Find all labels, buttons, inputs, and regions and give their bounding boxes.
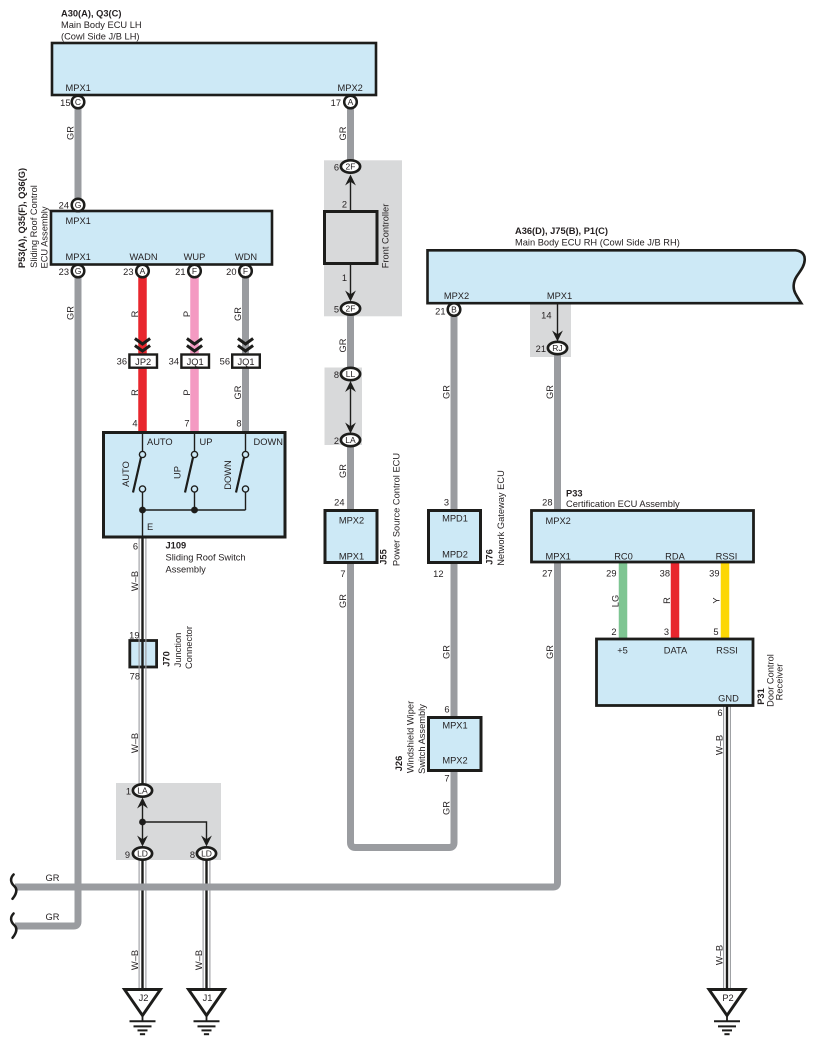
svg-text:36: 36: [117, 357, 127, 367]
title J76 rotated: [485, 549, 495, 565]
label MPX2 in J55: [339, 516, 364, 526]
pin 15 C: [60, 96, 84, 109]
label DOWN rotated in J109: [223, 460, 233, 489]
title Connector rotated: [184, 626, 194, 669]
receiver P31 box: [597, 639, 754, 706]
arrow down into lower 2F: [345, 291, 356, 302]
label WADN in P53: [129, 252, 157, 262]
label GR wire P33 down: [545, 645, 555, 659]
chevron arrows into JP2: [135, 339, 150, 352]
wire W-B connector LD to ground J1: [203, 859, 210, 990]
svg-text:LD: LD: [137, 849, 148, 859]
svg-text:MPX1: MPX1: [66, 216, 91, 226]
title P33: [566, 489, 680, 510]
svg-text:2F: 2F: [346, 304, 356, 314]
label R wire upper: [130, 310, 140, 317]
link junction down to LD 9: [142, 822, 144, 840]
svg-text:8: 8: [236, 419, 241, 429]
svg-text:B: B: [451, 305, 457, 315]
label AUTO rotated in J109: [121, 461, 131, 487]
label UP rotated in J109: [173, 466, 183, 479]
ECU A30 Main Body ECU LH box: [52, 43, 376, 95]
svg-text:Front Controller: Front Controller: [381, 204, 391, 269]
svg-text:W–B: W–B: [130, 950, 140, 970]
pin 1 label front controller: [342, 273, 347, 283]
switch J26 box: [429, 718, 482, 771]
svg-text:G: G: [75, 200, 82, 210]
svg-text:G: G: [75, 266, 82, 276]
LA-LD connector shaded panel: [116, 783, 221, 860]
svg-text:C: C: [75, 97, 81, 107]
label Y wire P33: [712, 597, 722, 603]
svg-text:WDN: WDN: [235, 252, 257, 262]
connector 9 LD: [125, 847, 152, 860]
svg-text:Receiver: Receiver: [775, 664, 785, 701]
pin 5 label P31: [713, 627, 718, 637]
svg-text:2: 2: [334, 436, 339, 446]
svg-text:24: 24: [59, 201, 69, 211]
svg-text:P31: P31: [756, 688, 766, 705]
svg-text:MPX1: MPX1: [546, 552, 571, 562]
svg-text:LL: LL: [346, 369, 356, 379]
svg-text:GR: GR: [338, 338, 348, 352]
svg-text:A30(A), Q3(C): A30(A), Q3(C): [61, 9, 121, 19]
svg-text:15: 15: [60, 98, 70, 108]
front controller shaded panel: [324, 160, 402, 316]
RJ connector shaded panel: [530, 304, 571, 358]
svg-text:JQ1: JQ1: [237, 357, 254, 367]
svg-text:J109: J109: [166, 541, 187, 551]
label GR horizontal lower: [46, 912, 60, 922]
label UP in J109: [200, 437, 213, 447]
wire R pin23A to JP2: [138, 271, 147, 355]
svg-text:21: 21: [536, 344, 546, 354]
title J55 rotated: [379, 549, 389, 565]
svg-text:LA: LA: [345, 435, 356, 445]
svg-text:RC0: RC0: [614, 552, 633, 562]
ECU J76 box: [429, 511, 481, 563]
pin 21 F: [175, 265, 201, 278]
pin 27 label P33: [542, 569, 552, 579]
svg-text:RSSI: RSSI: [716, 646, 738, 656]
link 2F to front controller pin2: [350, 180, 352, 212]
svg-text:RSSI: RSSI: [716, 552, 738, 562]
connector 8 LL: [334, 368, 360, 380]
label E in J109: [147, 522, 153, 532]
svg-text:E: E: [147, 522, 153, 532]
label RC0 in P33: [614, 552, 633, 562]
svg-text:8: 8: [334, 370, 339, 380]
svg-text:4: 4: [132, 419, 137, 429]
label MPX1 top in P53: [66, 216, 91, 226]
arrow down into RJ: [552, 331, 563, 342]
arrow down into LA: [345, 423, 356, 434]
wire GR pin21B to J76 MPD1: [451, 310, 458, 513]
label RSSI in P31: [716, 646, 738, 656]
svg-text:5: 5: [334, 305, 339, 315]
link front controller pin1 to 2F: [350, 263, 352, 296]
svg-text:MPX2: MPX2: [442, 756, 467, 766]
svg-text:7: 7: [444, 774, 449, 784]
ground J1: [189, 990, 225, 1035]
label MPX1 in J55: [339, 552, 364, 562]
label W-B wire LD-J1: [194, 950, 204, 970]
connector 36 JP2: [117, 355, 157, 368]
pin 23 A: [123, 265, 149, 278]
junction dot AUTO bus: [139, 507, 146, 514]
junction connector J70: [130, 641, 157, 668]
pin 14 label: [541, 311, 551, 321]
wire GR J76 MPD2 to J26 MPX1: [451, 561, 458, 719]
svg-text:R: R: [130, 310, 140, 317]
svg-text:Main Body ECU LH: Main Body ECU LH: [61, 20, 142, 30]
title Network Gateway ECU rotated: [496, 470, 506, 566]
svg-text:34: 34: [169, 357, 179, 367]
svg-text:17: 17: [331, 98, 341, 108]
svg-text:Sliding Roof Switch: Sliding Roof Switch: [166, 553, 246, 563]
arrow down into LD 9: [137, 836, 148, 847]
svg-text:F: F: [243, 266, 248, 276]
svg-text:9: 9: [125, 850, 130, 860]
link LL to LA: [350, 386, 352, 428]
svg-text:6: 6: [444, 705, 449, 715]
label RSSI in P33: [716, 552, 738, 562]
svg-text:GR: GR: [545, 645, 555, 659]
label GR wire 17-2F: [338, 126, 348, 140]
wire GR pin17A to connector 2F: [347, 102, 354, 164]
label GR horizontal upper: [46, 873, 60, 883]
svg-text:MPX1: MPX1: [66, 252, 91, 262]
pin 8 label switch: [236, 419, 241, 429]
label GR wire 23 down: [66, 306, 76, 320]
svg-text:P33: P33: [566, 489, 583, 499]
svg-text:A: A: [348, 97, 354, 107]
svg-text:R: R: [130, 389, 140, 396]
label MPD1 in J76: [442, 514, 468, 524]
svg-text:W–B: W–B: [715, 945, 725, 965]
svg-text:R: R: [662, 597, 672, 604]
break symbol lower GR: [11, 914, 16, 938]
label MPX1 bottom in P53: [66, 252, 91, 262]
svg-text:MPX2: MPX2: [444, 291, 469, 301]
svg-text:6: 6: [717, 708, 722, 718]
link LA to LD junction: [142, 802, 144, 822]
svg-text:6: 6: [334, 163, 339, 173]
arrow up into lower LA: [137, 798, 148, 809]
svg-text:39: 39: [709, 569, 719, 579]
ground P2: [709, 990, 745, 1035]
svg-text:Connector: Connector: [184, 626, 194, 669]
svg-text:AUTO: AUTO: [147, 437, 173, 447]
svg-text:23: 23: [123, 267, 133, 277]
pin 6 label switch: [133, 542, 138, 552]
svg-text:3: 3: [664, 627, 669, 637]
svg-text:GR: GR: [66, 126, 76, 140]
label GR wire 15-24: [66, 126, 76, 140]
svg-text:J26: J26: [394, 756, 404, 772]
label GR wire 20 upper: [233, 307, 243, 321]
wire P JQ1 to switch pin7: [190, 367, 199, 433]
svg-text:2: 2: [342, 200, 347, 210]
pin 38 label P33: [660, 569, 670, 579]
pin 21 B: [435, 303, 460, 316]
svg-text:27: 27: [542, 569, 552, 579]
title A36: [515, 226, 680, 248]
label W-B wire switch-J70: [130, 571, 140, 591]
svg-text:GR: GR: [46, 912, 60, 922]
connector 6 2F: [334, 160, 360, 172]
label GR wire J55 down: [338, 594, 348, 608]
wire GR J55 MPX1 to J26 MPX2: [351, 561, 455, 848]
svg-text:MPX2: MPX2: [339, 516, 364, 526]
svg-text:7: 7: [340, 569, 345, 579]
pin 6 label J26: [444, 705, 449, 715]
arrow up into 2F: [345, 175, 356, 186]
svg-text:MPX2: MPX2: [546, 516, 571, 526]
svg-text:J76: J76: [485, 549, 495, 565]
ground J2: [125, 990, 161, 1035]
pin 19 label J70: [129, 631, 139, 641]
label MPD2 in J76: [442, 550, 468, 560]
svg-text:23: 23: [59, 267, 69, 277]
wire GR pin15C to pin24G: [75, 102, 82, 205]
svg-text:Y: Y: [712, 597, 722, 603]
label AUTO in J109: [147, 437, 173, 447]
svg-text:Sliding Roof Control: Sliding Roof Control: [29, 185, 39, 268]
svg-text:W–B: W–B: [130, 733, 140, 753]
svg-text:56: 56: [220, 357, 230, 367]
label WUP in P53: [184, 252, 206, 262]
svg-text:GR: GR: [441, 385, 451, 399]
pin 7 label J26: [444, 774, 449, 784]
svg-text:Power Source Control ECU: Power Source Control ECU: [392, 453, 402, 566]
title Receiver rotated: [775, 664, 785, 701]
label MPX1 in J26: [442, 721, 467, 731]
title ECU Assembly rotated: [40, 206, 50, 268]
connector 21 RJ: [536, 342, 567, 354]
wire Y P33 RSSI to P31 RSSI: [721, 561, 730, 640]
pin 17 A: [331, 96, 357, 109]
connector 1 LA: [126, 784, 152, 796]
title Door Control rotated: [766, 654, 776, 707]
pin 3 label J76: [444, 498, 449, 508]
svg-text:LD: LD: [201, 849, 212, 859]
link ECU RH pin14 to RJ: [557, 303, 559, 335]
label MPX2 in J26: [442, 756, 467, 766]
pin 20 F: [226, 265, 252, 278]
label DATA in P31: [664, 646, 688, 656]
svg-text:12: 12: [433, 569, 443, 579]
junction dot at LA-LD split: [139, 819, 146, 826]
svg-text:GR: GR: [233, 307, 243, 321]
svg-text:ECU Assembly: ECU Assembly: [40, 206, 50, 268]
wire GR pin20F to JQ1: [242, 271, 249, 355]
wire W-B P31 GND to ground P2: [724, 706, 731, 991]
svg-text:6: 6: [133, 542, 138, 552]
label LG wire: [610, 595, 620, 607]
svg-text:3: 3: [444, 498, 449, 508]
svg-text:MPX1: MPX1: [547, 291, 572, 301]
svg-text:78: 78: [130, 672, 140, 682]
svg-text:DATA: DATA: [664, 646, 688, 656]
svg-text:A: A: [140, 266, 146, 276]
label W-B wire LD-J2: [130, 950, 140, 970]
svg-text:W–B: W–B: [130, 571, 140, 591]
pin 78 label J70: [130, 672, 140, 682]
pin 2 label front controller: [342, 200, 347, 210]
svg-text:F: F: [192, 266, 197, 276]
title Power Source Control ECU rotated: [392, 453, 402, 566]
connector 2 LA: [334, 434, 360, 446]
svg-text:GR: GR: [66, 306, 76, 320]
label GR wire RJ-P33: [545, 385, 555, 399]
title Front Controller rotated: [381, 204, 391, 269]
label GR wire LA-J55: [338, 464, 348, 478]
link junction across to LD 8: [143, 822, 207, 840]
label GR wire B-J76: [441, 385, 451, 399]
svg-text:MPX1: MPX1: [339, 552, 364, 562]
svg-text:LG: LG: [610, 595, 620, 607]
svg-text:UP: UP: [173, 466, 183, 479]
svg-text:GR: GR: [233, 385, 243, 399]
svg-text:20: 20: [226, 267, 236, 277]
svg-text:GR: GR: [46, 873, 60, 883]
label MPX1 in A36: [547, 291, 572, 301]
svg-text:GR: GR: [441, 801, 451, 815]
title J109: [166, 541, 246, 575]
svg-text:J2: J2: [139, 993, 149, 1003]
ECU P33 box: [532, 511, 754, 563]
wire GR JQ1 to switch pin8: [242, 367, 249, 433]
wire LG P33 RC0 to P31 +5: [619, 561, 628, 640]
svg-text:2: 2: [611, 627, 616, 637]
svg-text:WADN: WADN: [129, 252, 157, 262]
ECU P53 Sliding Roof Control ECU box: [51, 211, 272, 265]
svg-text:GND: GND: [718, 694, 739, 704]
svg-text:MPD2: MPD2: [442, 550, 468, 560]
label WDN in P53: [235, 252, 257, 262]
label MPX1 in A30: [66, 83, 91, 93]
svg-text:14: 14: [541, 311, 551, 321]
label P wire lower: [182, 389, 192, 395]
pin 7 label switch: [184, 419, 189, 429]
label GR wire 2F-LL: [338, 338, 348, 352]
switch blades and contacts AUTO UP DOWN: [133, 432, 249, 510]
svg-text:GR: GR: [338, 594, 348, 608]
svg-text:AUTO: AUTO: [121, 461, 131, 487]
svg-text:1: 1: [126, 787, 131, 797]
svg-text:W–B: W–B: [715, 735, 725, 755]
svg-text:Windshield Wiper: Windshield Wiper: [406, 701, 416, 773]
pin 24 G: [59, 199, 85, 212]
svg-text:Certification ECU Assembly: Certification ECU Assembly: [566, 499, 680, 509]
svg-text:19: 19: [129, 631, 139, 641]
svg-text:A36(D), J75(B), P1(C): A36(D), J75(B), P1(C): [515, 226, 608, 236]
svg-text:DOWN: DOWN: [223, 460, 233, 489]
svg-text:DOWN: DOWN: [254, 437, 283, 447]
label GR wire J26 down: [441, 801, 451, 815]
label MPX2 in A36: [444, 291, 469, 301]
svg-text:Network Gateway ECU: Network Gateway ECU: [496, 470, 506, 566]
pin 23 G: [59, 265, 85, 278]
svg-text:GR: GR: [545, 385, 555, 399]
svg-text:Switch Assembly: Switch Assembly: [417, 704, 427, 774]
label P wire upper: [182, 311, 192, 317]
label RDA in P33: [665, 552, 685, 562]
wire GR P33 MPX1 down and left to break: [15, 561, 558, 887]
svg-text:GR: GR: [338, 126, 348, 140]
label GR wire J76-J26: [441, 645, 451, 659]
svg-text:P: P: [182, 311, 192, 317]
svg-text:J70: J70: [162, 651, 172, 667]
svg-text:+5: +5: [617, 646, 628, 656]
front controller box: [325, 212, 378, 264]
svg-text:24: 24: [334, 498, 344, 508]
label W-B wire GND upper: [715, 735, 725, 755]
pin 28 label P33: [542, 498, 552, 508]
svg-text:J1: J1: [203, 993, 213, 1003]
label DOWN in J109: [254, 437, 283, 447]
svg-text:1: 1: [342, 273, 347, 283]
svg-text:21: 21: [175, 267, 185, 277]
svg-text:P2: P2: [722, 993, 733, 1003]
label +5 in P31: [617, 646, 628, 656]
svg-text:MPX1: MPX1: [66, 83, 91, 93]
svg-text:MPX1: MPX1: [442, 721, 467, 731]
pin 12 label J76: [433, 569, 443, 579]
ECU A36 Main Body ECU RH box with torn edge: [428, 250, 805, 303]
title Junction rotated: [173, 633, 183, 668]
pin 4 label: [132, 419, 137, 429]
pin 6 label P31 GND: [717, 708, 722, 718]
pin 24 label J55: [334, 498, 344, 508]
svg-text:21: 21: [435, 307, 445, 317]
label R wire P33: [662, 597, 672, 604]
pin 39 label P33: [709, 569, 719, 579]
svg-text:(Cowl Side J/B LH): (Cowl Side J/B LH): [61, 32, 140, 42]
svg-text:GR: GR: [338, 464, 348, 478]
label MPX1 in P33: [546, 552, 571, 562]
label W-B wire J70-LA: [130, 733, 140, 753]
svg-text:RDA: RDA: [665, 552, 685, 562]
svg-text:UP: UP: [200, 437, 213, 447]
wire R P33 RDA to P31 DATA: [671, 561, 680, 640]
svg-text:J55: J55: [379, 549, 389, 565]
title Switch Assembly rotated: [417, 704, 427, 774]
pin 2 label P31: [611, 627, 616, 637]
break symbol upper GR: [11, 875, 16, 899]
connector 5 2F: [334, 302, 360, 314]
svg-text:Junction: Junction: [173, 633, 183, 668]
svg-text:Assembly: Assembly: [166, 565, 207, 575]
wire W-B switch pin6 to connector LA: [139, 537, 146, 786]
svg-text:W–B: W–B: [194, 950, 204, 970]
label W-B wire GND lower: [715, 945, 725, 965]
svg-text:Main Body ECU RH (Cowl Side J/: Main Body ECU RH (Cowl Side J/B RH): [515, 238, 680, 248]
svg-text:P: P: [182, 389, 192, 395]
chevron arrows into JQ1 second: [238, 339, 253, 352]
title Windshield Wiper rotated: [406, 701, 416, 773]
svg-text:5: 5: [713, 627, 718, 637]
svg-text:29: 29: [606, 569, 616, 579]
svg-text:28: 28: [542, 498, 552, 508]
wire R JP2 to switch pin4: [138, 367, 147, 433]
wire GR connector 2F to connector LL: [347, 309, 354, 373]
wire GR connector RJ to P33 MPX2: [554, 350, 561, 512]
svg-text:P53(A), Q35(F), Q36(G): P53(A), Q35(F), Q36(G): [17, 168, 27, 268]
pin 7 label J55: [340, 569, 345, 579]
title Sliding Roof Control rotated: [29, 185, 39, 268]
